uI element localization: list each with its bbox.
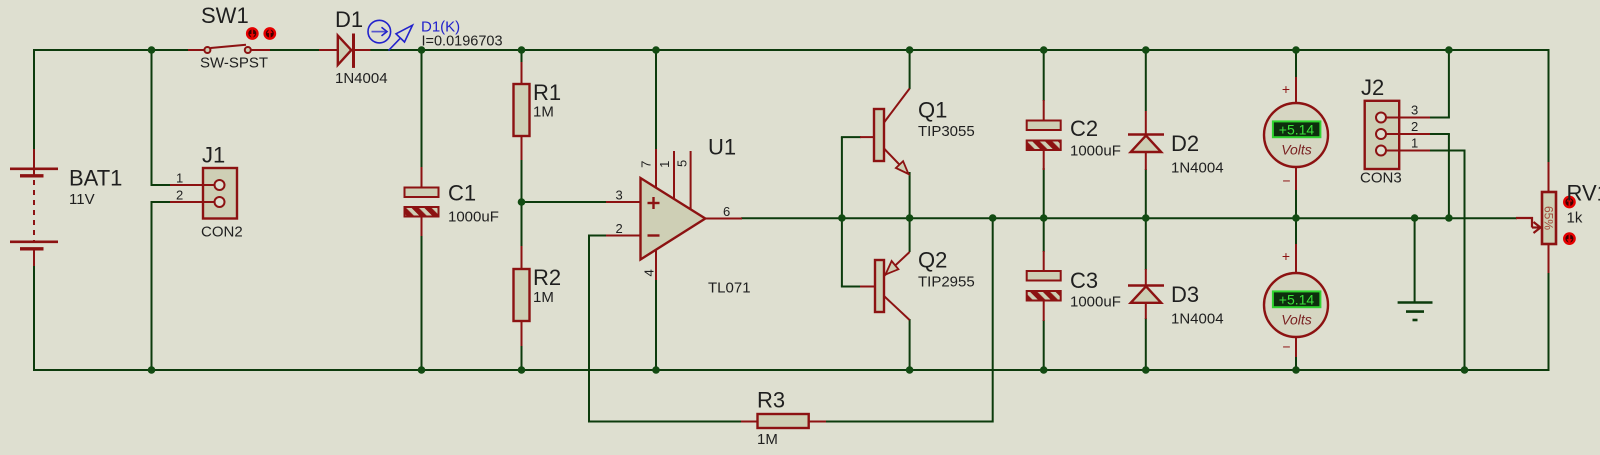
junction C3 / bottom rail [1040,366,1048,374]
wire top rail left of switch [34,49,204,51]
transistor Q2 [860,248,975,321]
svg-text:2: 2 [616,221,623,236]
junction ground / output node [1411,214,1419,222]
wire Q1 emitter vertical [909,172,911,219]
wire opamp pin7 vertical [655,49,657,150]
junction C1 / bottom rail [418,366,426,374]
wire D3 bottom vertical [1145,318,1147,371]
svg-text:TL071: TL071 [708,280,751,297]
svg-text:D3: D3 [1171,282,1199,307]
wire Q2 base horizontal [841,286,861,288]
current probe D1(K) [368,19,503,51]
junction R1-R2 / opamp pin3 [518,198,526,206]
svg-text:RV1: RV1 [1567,181,1600,206]
wire R3 right horizontal [825,421,993,423]
junction U1 pin7 / top rail [652,46,660,54]
wire J1 pin1 vertical [151,49,153,185]
resistor R1 [514,62,562,160]
svg-text:−: − [1282,339,1290,355]
wire C3 bottom vertical [1043,320,1045,371]
svg-text:CON2: CON2 [201,224,243,241]
wire J2 pin1 vertical [1464,151,1466,372]
svg-text:5: 5 [675,160,690,167]
diode D3 [1128,269,1224,328]
switch SW1 [188,3,275,72]
wire R1-R2 mid vertical [521,158,523,248]
capacitor C3 [1027,251,1121,321]
svg-text:2: 2 [176,188,183,203]
svg-text:65%: 65% [1541,206,1555,230]
wire C3 top vertical [1043,217,1045,252]
wire D2 top vertical [1145,49,1147,111]
svg-text:R3: R3 [757,388,785,413]
svg-text:4: 4 [642,269,657,276]
wire J1 pin2 vertical [151,202,153,371]
wire voltmeter1 bottom vertical [1295,189,1297,219]
svg-text:1M: 1M [757,431,778,448]
wire J2 pin3 vertical [1448,49,1450,118]
wire battery top vertical [33,49,35,150]
wire J2 pin2 vertical [1448,134,1450,219]
junction J2 pin2 / output node [1445,214,1453,222]
wire transistor bases vertical [841,137,843,286]
junction C2-C3 / output node [1040,214,1048,222]
wire R3 left horizontal [588,421,742,423]
wire battery bottom vertical [33,265,35,371]
junction Q emitters / output node [906,214,914,222]
svg-text:1000uF: 1000uF [1070,143,1121,160]
wire D2 bottom vertical [1145,169,1147,219]
wire feedback left vertical [588,235,590,422]
wire opamp pin3 horizontal [522,201,607,203]
svg-text:J1: J1 [202,143,225,168]
junction R2 / bottom rail [518,366,526,374]
svg-text:Volts: Volts [1281,142,1312,158]
wire top rail right of switch [251,49,1549,51]
svg-text:I=0.0196703: I=0.0196703 [422,34,503,50]
junction R1 / top rail [518,46,526,54]
junction Q2 collector / bottom rail [906,366,914,374]
wire Q2 collector vertical [909,319,911,371]
wire Q1 collector vertical [909,49,911,89]
svg-text:C1: C1 [448,181,476,206]
svg-text:+5.14: +5.14 [1279,122,1315,138]
svg-text:+: + [1282,248,1290,264]
svg-text:1000uF: 1000uF [448,209,499,226]
junction D3 / bottom rail [1142,366,1150,374]
svg-text:1k: 1k [1567,210,1583,227]
svg-text:+5.14: +5.14 [1279,292,1315,308]
capacitor C1 [405,167,499,236]
wire voltmeter2 top vertical [1295,217,1297,245]
junction J1 pin2 / bottom rail [148,366,156,374]
svg-text:6: 6 [723,204,730,219]
op-amp U1 [606,135,751,297]
wire J2 pin3 horizontal [1429,117,1450,119]
wire R1 vertical [521,49,523,63]
svg-text:1M: 1M [533,289,554,306]
wire RV1 top vertical [1548,49,1550,163]
svg-text:3: 3 [616,188,623,203]
junction J2 pin3 / top rail [1445,46,1453,54]
wire C1 bottom vertical [421,235,423,371]
voltmeter VM2 [1264,244,1328,357]
wire voltmeter2 bottom vertical [1295,355,1297,371]
wire bottom rail [34,369,1549,371]
resistor R3 [741,388,826,449]
junction voltmeter2 / bottom rail [1292,366,1300,374]
junction J2 pin1 / bottom rail [1461,366,1469,374]
wire output node rail [741,217,1517,219]
wire C2 bottom vertical [1043,168,1045,219]
wire Q1 base horizontal [841,136,861,138]
svg-text:D2: D2 [1171,131,1199,156]
junction D2-D3 / output node [1142,214,1150,222]
svg-text:R1: R1 [533,80,561,105]
diode D1 [319,7,388,87]
resistor R2 [514,246,562,346]
wire D3 top vertical [1145,217,1147,270]
svg-text:1: 1 [176,171,183,186]
svg-text:U1: U1 [708,135,736,160]
svg-text:2: 2 [1411,119,1418,134]
svg-text:1M: 1M [533,104,554,121]
junction voltmeter1 / top rail [1292,46,1300,54]
svg-text:−: − [1282,173,1290,189]
junction R3 feedback / output node [989,214,997,222]
svg-text:SW-SPST: SW-SPST [200,55,268,72]
junction Q bases / output node [838,214,846,222]
wire R2 bottom vertical [521,344,523,371]
svg-text:BAT1: BAT1 [69,166,122,191]
potentiometer RV1 [1516,162,1600,273]
svg-text:1N4004: 1N4004 [335,70,388,87]
wire C1 top vertical [421,49,423,168]
svg-text:1: 1 [1411,136,1418,151]
svg-text:1N4004: 1N4004 [1171,311,1224,328]
junction Q1 collector / top rail [906,46,914,54]
svg-text:+: + [1282,81,1290,97]
junction C2 / top rail [1040,46,1048,54]
diode D2 [1128,111,1224,177]
wire opamp pin4 vertical [655,279,657,371]
svg-text:R2: R2 [533,265,561,290]
svg-text:TIP3055: TIP3055 [918,123,975,140]
wire C2 top vertical [1043,49,1045,101]
svg-text:D1: D1 [335,7,363,32]
wire J1 pin1 horizontal [151,184,172,186]
svg-text:SW1: SW1 [201,3,249,28]
svg-text:11V: 11V [69,191,95,208]
junction C1 / top rail [418,46,426,54]
wire J1 pin2 horizontal [151,201,172,203]
wire RV1 bottom vertical [1548,272,1550,371]
svg-text:J2: J2 [1361,75,1384,100]
svg-text:1N4004: 1N4004 [1171,160,1224,177]
junction J1 pin1 / top rail [148,46,156,54]
wire ground vertical [1414,217,1416,303]
svg-text:C2: C2 [1070,116,1098,141]
battery BAT1 [10,149,122,266]
svg-text:C3: C3 [1070,268,1098,293]
wire J2 pin2 horizontal [1429,133,1450,135]
capacitor C2 [1027,100,1121,170]
svg-text:Q1: Q1 [918,98,947,123]
wire Q2 emitter vertical [909,217,911,252]
junction D2 / top rail [1142,46,1150,54]
connector J2 [1360,75,1430,187]
svg-text:1000uF: 1000uF [1070,294,1121,311]
svg-text:3: 3 [1411,103,1418,118]
svg-text:7: 7 [639,161,654,168]
wire J2 pin1 horizontal [1429,150,1466,152]
svg-text:TIP2955: TIP2955 [918,274,975,291]
wire voltmeter1 top vertical [1295,49,1297,78]
svg-text:Volts: Volts [1281,312,1312,328]
ground [1398,303,1433,321]
transistor Q1 [860,89,975,175]
junction voltmeters / output node [1292,214,1300,222]
junction U1 pin4 / bottom rail [652,366,660,374]
connector J1 [170,143,243,241]
svg-text:Q2: Q2 [918,248,947,273]
voltmeter VM1 [1264,77,1328,190]
wire feedback right vertical [992,218,994,423]
wire opamp pin2 horizontal [589,235,606,237]
svg-text:CON3: CON3 [1360,170,1402,187]
svg-text:1: 1 [657,161,672,168]
